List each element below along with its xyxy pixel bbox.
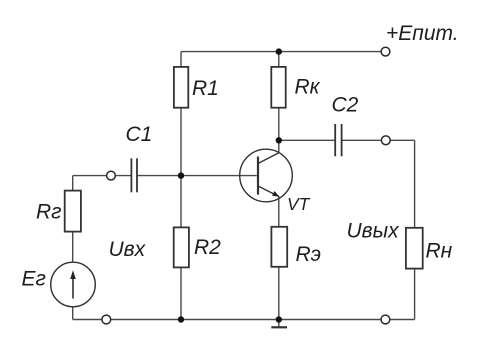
resistor Rэ	[271, 227, 287, 267]
transistor VT	[240, 149, 293, 202]
resistor R2	[174, 227, 189, 267]
resistor R1	[174, 67, 188, 108]
svg-text:+Eпит.: +Eпит.	[386, 22, 459, 45]
svg-text:Uвх: Uвх	[109, 238, 147, 261]
wire output row right of C2	[342, 139, 415, 141]
source Eг	[51, 262, 96, 307]
node junction bottom emitter	[276, 316, 282, 322]
resistor Rк	[271, 67, 285, 108]
node junction base	[178, 172, 184, 178]
wire emitter spine lower	[278, 197, 280, 320]
node junction collector	[276, 137, 282, 143]
node junction bottom left	[178, 316, 184, 322]
resistor Rг	[65, 191, 81, 232]
svg-text:VT: VT	[287, 194, 311, 214]
svg-text:Rэ: Rэ	[296, 243, 322, 266]
svg-text:Eг: Eг	[22, 268, 46, 291]
svg-text:Rг: Rг	[36, 201, 62, 224]
wire collector spine upper	[278, 52, 280, 153]
wire top rail	[181, 51, 381, 53]
svg-text:R1: R1	[192, 77, 219, 100]
ground	[271, 320, 287, 328]
svg-text:C1: C1	[126, 123, 153, 146]
wire input row left of C1	[73, 175, 131, 177]
capacitor C1	[131, 158, 137, 192]
wire left bias spine (R1/R2 column)	[180, 52, 182, 320]
svg-text:R2: R2	[194, 236, 221, 259]
wire load spine	[414, 140, 416, 319]
terminal bottom left	[102, 315, 111, 324]
terminal input	[107, 171, 116, 180]
svg-text:Rк: Rк	[295, 76, 321, 99]
capacitor C2	[335, 124, 341, 156]
wire input row right of C1 to base	[137, 175, 256, 177]
terminal +Eпит	[381, 47, 390, 56]
resistor Rн	[406, 228, 423, 269]
svg-text:Rн: Rн	[426, 240, 453, 263]
node junction top	[276, 48, 282, 54]
terminal output	[381, 136, 390, 145]
wire output row left of C2	[279, 139, 335, 141]
terminal bottom right	[381, 315, 390, 324]
wire generator spine	[72, 176, 74, 320]
svg-text:Uвых: Uвых	[347, 219, 401, 242]
svg-text:C2: C2	[332, 94, 359, 117]
wire bottom rail	[73, 319, 415, 321]
